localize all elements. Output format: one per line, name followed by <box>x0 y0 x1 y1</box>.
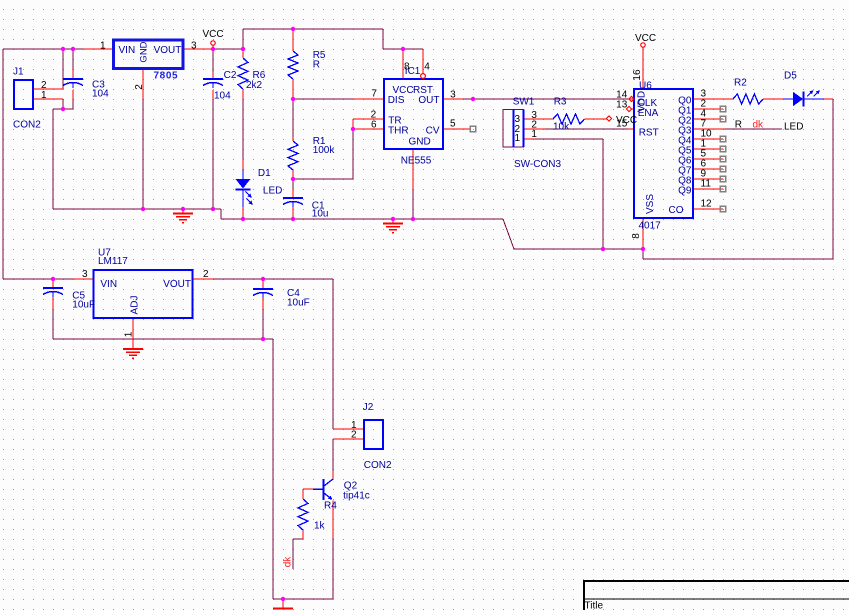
svg-text:2: 2 <box>351 430 357 441</box>
svg-text:SW-CON3: SW-CON3 <box>514 159 561 170</box>
svg-text:CO: CO <box>669 205 684 216</box>
svg-text:2: 2 <box>134 84 145 90</box>
svg-text:4017: 4017 <box>639 221 662 232</box>
svg-text:LED: LED <box>263 186 282 197</box>
svg-text:10k: 10k <box>553 122 570 133</box>
svg-text:16: 16 <box>632 69 643 81</box>
svg-text:1k: 1k <box>314 521 326 532</box>
svg-text:CON2: CON2 <box>364 460 392 471</box>
svg-text:Q9: Q9 <box>678 186 692 197</box>
svg-text:1: 1 <box>124 331 135 337</box>
svg-text:NE555: NE555 <box>401 156 432 167</box>
svg-text:3: 3 <box>450 90 456 101</box>
svg-text:104: 104 <box>92 89 109 100</box>
svg-text:R: R <box>735 120 742 131</box>
svg-text:1: 1 <box>515 133 521 144</box>
svg-text:VIN: VIN <box>119 45 136 56</box>
svg-text:THR: THR <box>388 126 409 137</box>
svg-text:D5: D5 <box>784 71 797 82</box>
svg-text:4: 4 <box>424 62 430 73</box>
svg-text:CV: CV <box>426 126 440 137</box>
svg-text:R: R <box>313 59 320 70</box>
svg-text:OUT: OUT <box>418 95 439 106</box>
svg-text:VCC: VCC <box>203 29 224 40</box>
svg-text:10u: 10u <box>312 209 329 220</box>
svg-text:7: 7 <box>371 89 377 100</box>
svg-text:VCC: VCC <box>635 33 656 44</box>
svg-text:7805: 7805 <box>154 71 179 82</box>
svg-text:DIS: DIS <box>388 95 405 106</box>
svg-text:6: 6 <box>371 119 377 130</box>
svg-text:R2: R2 <box>734 78 747 89</box>
svg-text:10uF: 10uF <box>287 297 310 308</box>
svg-text:U6: U6 <box>639 81 652 92</box>
svg-text:13: 13 <box>616 100 628 111</box>
svg-text:5: 5 <box>450 119 456 130</box>
svg-text:RST: RST <box>639 128 659 139</box>
svg-text:15: 15 <box>616 119 628 130</box>
svg-text:J1: J1 <box>13 67 24 78</box>
svg-text:VOUT: VOUT <box>163 279 191 290</box>
svg-text:8: 8 <box>404 62 410 73</box>
svg-text:8: 8 <box>631 233 642 239</box>
svg-text:104: 104 <box>214 90 231 101</box>
svg-text:CON2: CON2 <box>13 120 41 131</box>
svg-text:R3: R3 <box>554 97 567 108</box>
svg-text:LM117: LM117 <box>98 256 128 267</box>
svg-text:VDD: VDD <box>637 91 648 112</box>
svg-text:D1: D1 <box>258 168 271 179</box>
svg-text:C2: C2 <box>224 70 237 81</box>
svg-text:Title: Title <box>585 601 604 610</box>
svg-text:SW1: SW1 <box>513 97 535 108</box>
svg-text:VIN: VIN <box>100 279 117 290</box>
svg-text:GND: GND <box>139 41 150 62</box>
svg-text:GND: GND <box>409 137 431 148</box>
svg-text:11: 11 <box>701 179 712 190</box>
svg-text:1: 1 <box>100 41 106 52</box>
svg-text:100k: 100k <box>313 145 336 156</box>
svg-text:J2: J2 <box>363 402 374 413</box>
svg-text:R4: R4 <box>324 501 337 512</box>
svg-text:VSS: VSS <box>645 194 656 214</box>
svg-text:2: 2 <box>203 269 209 280</box>
svg-text:1: 1 <box>531 129 537 140</box>
svg-text:dk: dk <box>283 556 294 568</box>
svg-text:ADJ: ADJ <box>130 296 141 315</box>
svg-text:12: 12 <box>701 199 713 210</box>
svg-text:10uF: 10uF <box>72 300 95 311</box>
svg-text:LED: LED <box>784 122 803 133</box>
svg-text:3: 3 <box>82 269 88 280</box>
svg-text:dk: dk <box>753 120 765 131</box>
svg-text:1: 1 <box>41 90 47 101</box>
svg-text:2k2: 2k2 <box>246 80 263 91</box>
svg-text:tip41c: tip41c <box>343 491 370 502</box>
svg-text:VOUT: VOUT <box>154 45 182 56</box>
svg-text:3: 3 <box>191 41 197 52</box>
